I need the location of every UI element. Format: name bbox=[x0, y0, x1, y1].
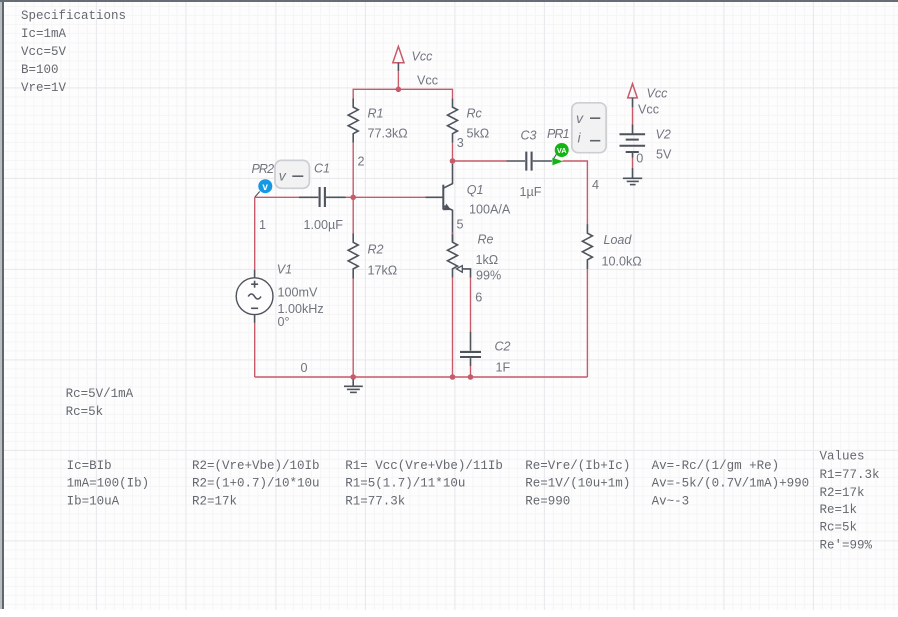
probe PR1 green arrow bbox=[552, 158, 563, 166]
wire: R2 bottom to ground rail bbox=[352, 279, 354, 378]
probe PR2 blue circle v bbox=[258, 179, 272, 193]
junction rail/Re bbox=[450, 374, 456, 380]
svg-text:R2=17k: R2=17k bbox=[192, 494, 237, 508]
source V1 bbox=[236, 270, 273, 323]
svg-text:Vcc: Vcc bbox=[638, 103, 659, 117]
svg-text:v: v bbox=[262, 182, 268, 193]
svg-text:Re=1V/(10u+1m): Re=1V/(10u+1m) bbox=[525, 477, 630, 491]
calc text: col5 Av bbox=[652, 459, 810, 509]
svg-text:3: 3 bbox=[457, 136, 464, 150]
svg-text:1: 1 bbox=[259, 218, 266, 232]
svg-text:Rc=5k: Rc=5k bbox=[66, 405, 104, 419]
wire: input corner down to V1 (node 1) bbox=[254, 197, 256, 269]
svg-text:v: v bbox=[576, 110, 584, 126]
transistor Q1 bbox=[425, 164, 452, 242]
svg-text:C1: C1 bbox=[314, 162, 330, 176]
svg-text:17kΩ: 17kΩ bbox=[368, 264, 398, 278]
wire: wiper down to C2 (node 6) bbox=[470, 278, 472, 332]
calc text: col3 R1 bbox=[345, 459, 503, 509]
svg-text:1.00µF: 1.00µF bbox=[304, 218, 344, 232]
wire: battery to ground bbox=[632, 158, 634, 169]
svg-text:Re=990: Re=990 bbox=[525, 494, 570, 508]
probe PR1 readout box bbox=[572, 103, 606, 153]
svg-text:PR2: PR2 bbox=[252, 162, 275, 176]
svg-text:Vcc=5V: Vcc=5V bbox=[21, 45, 67, 59]
calc text: Rc block bbox=[66, 387, 134, 419]
svg-text:Ic=1mA: Ic=1mA bbox=[21, 27, 67, 41]
svg-text:5: 5 bbox=[457, 218, 464, 232]
junction on Vcc rail bbox=[396, 87, 402, 93]
svg-text:Vcc: Vcc bbox=[412, 50, 434, 64]
wire: R1 bottom to base node to R2 top (node 2) bbox=[352, 143, 354, 234]
svg-text:Rc: Rc bbox=[467, 107, 483, 121]
svg-text:R2=17k: R2=17k bbox=[820, 486, 865, 500]
svg-text:4: 4 bbox=[592, 178, 599, 192]
probe PR1 pin pointer bbox=[553, 154, 557, 161]
svg-text:Av=-5k/(0.7V/1mA)+990: Av=-5k/(0.7V/1mA)+990 bbox=[652, 477, 810, 491]
svg-text:1F: 1F bbox=[496, 361, 511, 375]
junction rail/ground bbox=[350, 374, 356, 380]
svg-text:C2: C2 bbox=[495, 340, 511, 354]
svg-text:v: v bbox=[279, 168, 287, 184]
svg-text:R2=(Vre+Vbe)/10Ib: R2=(Vre+Vbe)/10Ib bbox=[192, 459, 320, 473]
svg-text:Specifications: Specifications bbox=[21, 9, 126, 23]
svg-text:Vcc: Vcc bbox=[417, 74, 438, 88]
emitter joint bbox=[452, 232, 454, 234]
svg-text:R2: R2 bbox=[368, 243, 384, 257]
svg-text:B=100: B=100 bbox=[21, 63, 59, 77]
capacitor C3 bbox=[507, 152, 552, 171]
junction rail/C2 bbox=[468, 374, 474, 380]
ground symbol (V2) bbox=[623, 168, 642, 185]
svg-text:R1=77.3k: R1=77.3k bbox=[820, 468, 880, 482]
wire: PR1 arrow to output corner, down to Load (node 4) bbox=[563, 161, 588, 224]
calc text: col2 R2 bbox=[192, 459, 320, 509]
wire: V1 bottom to ground rail bbox=[254, 323, 256, 377]
probe PR2 readout box bbox=[275, 160, 309, 188]
wire: Re bottom to ground rail bbox=[452, 278, 454, 377]
svg-text:Vcc: Vcc bbox=[647, 87, 669, 101]
svg-text:0°: 0° bbox=[278, 315, 290, 329]
spec text block bbox=[21, 9, 126, 95]
junction collector node bbox=[450, 158, 456, 164]
svg-text:Re'=99%: Re'=99% bbox=[820, 539, 873, 553]
svg-text:R1=77.3k: R1=77.3k bbox=[345, 494, 405, 508]
svg-text:1kΩ: 1kΩ bbox=[476, 253, 499, 267]
wire: C2 bottom to ground rail bbox=[470, 366, 472, 377]
Vcc power flag (V2) bbox=[628, 84, 638, 108]
probe PR1 green circle VA bbox=[555, 143, 569, 157]
svg-text:Re=1k: Re=1k bbox=[820, 503, 858, 517]
wire: Rc bottom to collector node bbox=[452, 143, 454, 161]
svg-text:R1=5(1.7)/11*10u: R1=5(1.7)/11*10u bbox=[345, 477, 465, 491]
svg-text:5kΩ: 5kΩ bbox=[467, 127, 490, 141]
capacitor C1 bbox=[299, 187, 346, 207]
calc text: col6 Values bbox=[820, 450, 880, 553]
svg-text:R1: R1 bbox=[368, 107, 384, 121]
resistor R1 bbox=[348, 99, 358, 143]
svg-text:1mA=100(Ib): 1mA=100(Ib) bbox=[67, 477, 150, 491]
svg-text:6: 6 bbox=[475, 290, 482, 304]
svg-text:5V: 5V bbox=[656, 148, 672, 162]
svg-text:Values: Values bbox=[820, 450, 865, 464]
wire: top Vcc rail bbox=[353, 89, 452, 98]
svg-text:Av=-Rc/(1/gm +Re): Av=-Rc/(1/gm +Re) bbox=[652, 459, 780, 473]
resistor R2 bbox=[348, 233, 358, 278]
wire: bottom ground rail bbox=[255, 376, 588, 378]
junction base/R1/R2 bbox=[350, 195, 356, 201]
svg-text:Re: Re bbox=[478, 233, 494, 247]
wire: C1 to base junction to Q1 base bbox=[346, 196, 426, 198]
svg-text:V1: V1 bbox=[277, 263, 292, 277]
svg-text:Vre=1V: Vre=1V bbox=[21, 81, 67, 95]
svg-text:Av~-3: Av~-3 bbox=[652, 494, 690, 508]
svg-text:Ic=BIb: Ic=BIb bbox=[67, 459, 112, 473]
svg-text:0: 0 bbox=[301, 361, 308, 375]
resistor Re (with wiper) bbox=[448, 234, 471, 277]
ground symbol (rail) bbox=[344, 380, 363, 393]
svg-text:Rc=5V/1mA: Rc=5V/1mA bbox=[66, 387, 134, 401]
svg-text:2: 2 bbox=[358, 154, 365, 168]
wire: base wire from input corner to C1 bbox=[255, 196, 299, 198]
wire: Load bottom to ground rail bbox=[586, 269, 588, 377]
svg-text:V2: V2 bbox=[656, 128, 671, 142]
wire: collector node to C3 bbox=[453, 160, 507, 162]
svg-text:R2=(1+0.7)/10*10u: R2=(1+0.7)/10*10u bbox=[192, 477, 320, 491]
svg-text:Re=Vre/(Ib+Ic): Re=Vre/(Ib+Ic) bbox=[525, 459, 630, 473]
svg-text:77.3kΩ: 77.3kΩ bbox=[368, 127, 408, 141]
calc text: col4 Re bbox=[525, 459, 630, 509]
svg-text:0: 0 bbox=[636, 151, 643, 165]
Vcc power flag (top, over R1/Rc rail) bbox=[393, 46, 404, 71]
svg-text:99%: 99% bbox=[476, 269, 501, 283]
resistor Rc bbox=[448, 99, 458, 143]
calc text: col1 Ic bbox=[67, 459, 150, 509]
svg-text:10.0kΩ: 10.0kΩ bbox=[602, 255, 642, 269]
capacitor C2 bbox=[460, 332, 481, 366]
svg-text:100A/A: 100A/A bbox=[469, 203, 511, 217]
wire: flag to battery bbox=[632, 107, 634, 124]
svg-text:Ib=10uA: Ib=10uA bbox=[67, 494, 120, 508]
svg-text:R1= Vcc(Vre+Vbe)/11Ib: R1= Vcc(Vre+Vbe)/11Ib bbox=[345, 459, 503, 473]
probe PR2 pin pointer bbox=[255, 192, 260, 198]
wire: Vcc flag stem to rail bbox=[397, 71, 399, 89]
svg-text:100mV: 100mV bbox=[278, 286, 319, 300]
svg-text:Q1: Q1 bbox=[467, 183, 484, 197]
svg-text:Load: Load bbox=[604, 233, 633, 247]
svg-text:Rc=5k: Rc=5k bbox=[820, 521, 858, 535]
svg-text:C3: C3 bbox=[521, 129, 537, 143]
battery V2 bbox=[620, 125, 646, 158]
resistor Load bbox=[582, 224, 592, 269]
svg-text:1µF: 1µF bbox=[520, 185, 542, 199]
svg-text:VA: VA bbox=[557, 146, 567, 155]
svg-text:PR1: PR1 bbox=[547, 127, 569, 141]
